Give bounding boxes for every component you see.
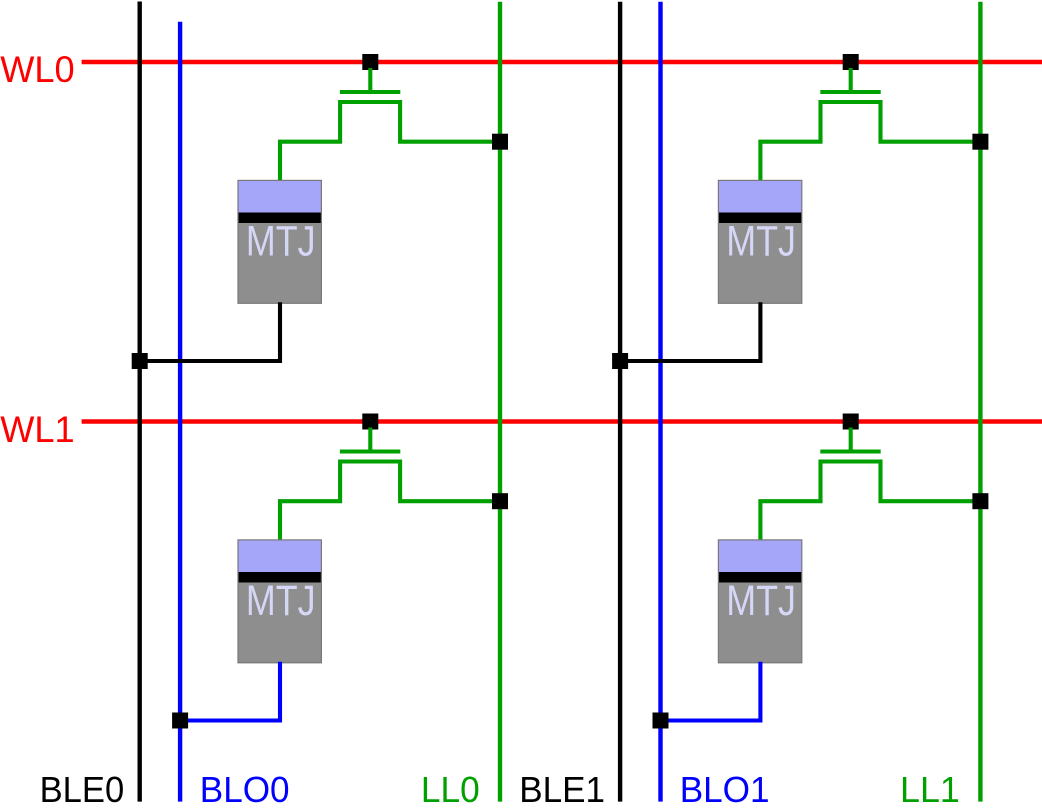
svg-text:LL0: LL0 [421,769,480,810]
node WL0 gate tap (cell row 0 col 0) [362,54,378,70]
svg-text:BLE0: BLE0 [40,769,125,810]
node BLE0 junction [132,353,148,369]
transistor Q11 channel bar [820,459,881,463]
wire MTJ bottom to BLE1 (black) [620,302,760,361]
wire BLE0 bitline rail [137,2,141,802]
wire MTJ bottom to BLO0 (blue) [180,662,280,721]
wire LL0 bitline rail [498,2,502,802]
transistor Q01 gate bar [820,90,880,94]
svg-text:BLE1: BLE1 [519,769,605,810]
wire Q01 source to MTJ top [760,100,820,181]
MTJ cell body (row 0 col 1) [718,180,801,303]
wire Q10 source to MTJ top [280,460,340,541]
MTJ cell body (row 0 col 0) [238,180,321,303]
svg-text:WL1: WL1 [0,409,74,450]
wire Q11 drain to LL rail [881,460,981,502]
transistor Q00 gate bar [340,90,400,94]
node BLO0 junction [172,713,188,729]
wire LL1 bitline rail [978,2,982,802]
wire MTJ bottom to BLO1 (blue) [661,662,761,721]
transistor Q10 channel bar [340,459,401,463]
wire WL0 wordline [82,60,1042,64]
svg-text:MTJ: MTJ [726,578,796,625]
svg-text:LL1: LL1 [900,769,960,810]
wire Q10 drain to LL rail [400,460,500,502]
wire BLO0 bitline rail [178,22,182,802]
transistor Q01 channel bar [820,100,881,104]
node WL0 gate tap (cell row 0 col 1) [843,54,859,70]
wire WL1 wordline [82,419,1042,423]
svg-text:BLO0: BLO0 [200,769,290,810]
wire Q00 drain to LL rail [400,100,500,142]
MTJ cell body (row 1 col 1) [718,540,801,663]
wire BLE1 bitline rail [618,2,622,802]
transistor Q11 gate stem [849,428,853,454]
MTJ cell body (row 1 col 0) [238,540,321,663]
svg-text:MTJ: MTJ [246,218,316,265]
wire MTJ bottom to BLE0 (black) [140,302,280,361]
transistor Q00 gate stem [368,68,372,94]
svg-text:MTJ: MTJ [726,218,796,265]
node BLE1 junction [612,353,628,369]
transistor Q01 gate stem [849,68,853,94]
node LL0 drain junction [492,493,508,509]
node LL1 drain junction [972,134,988,150]
transistor Q00 channel bar [340,100,401,104]
transistor Q10 gate bar [340,449,400,453]
svg-text:BLO1: BLO1 [680,769,770,810]
node BLO1 junction [653,713,669,729]
wire BLO1 bitline rail [658,2,662,802]
wire Q11 source to MTJ top [760,460,820,541]
transistor Q10 gate stem [368,428,372,454]
node LL0 drain junction [492,134,508,150]
svg-text:WL0: WL0 [0,49,74,90]
wire Q01 drain to LL rail [881,100,981,142]
node WL1 gate tap (cell row 1 col 0) [362,414,378,430]
wire Q00 source to MTJ top [280,100,340,181]
transistor Q11 gate bar [820,449,880,453]
svg-text:MTJ: MTJ [246,578,316,625]
node WL1 gate tap (cell row 1 col 1) [843,414,859,430]
node LL1 drain junction [972,493,988,509]
